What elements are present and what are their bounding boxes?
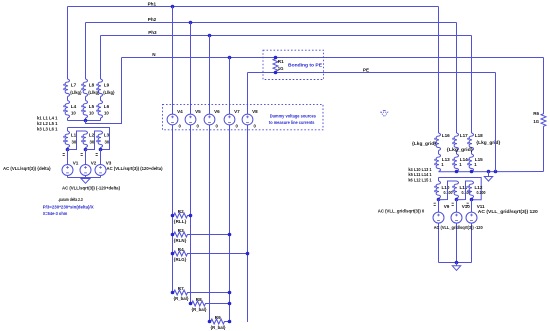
svg-text:{R_bal}: {R_bal} [174, 296, 189, 301]
svg-text:R2: R2 [178, 209, 184, 214]
wire line 5 lower [247, 125, 249, 322]
node grid tap 3 [470, 198, 474, 202]
dashed box dummy sources [163, 104, 324, 129]
node tap on rail 4 [228, 56, 232, 60]
svg-text:1G: 1G [278, 66, 284, 71]
svg-text:L16: L16 [442, 133, 450, 138]
wire phase 1 feeder [67, 7, 69, 80]
svg-text:X=64e-3 ohm: X=64e-3 ohm [43, 211, 68, 216]
svg-text:V9: V9 [444, 204, 450, 209]
svg-text:P/3=230*230*sin(delta)/X: P/3=230*230*sin(delta)/X [43, 204, 95, 209]
svg-text:{Lkg_grid}: {Lkg_grid} [412, 141, 436, 146]
ground grid sources [456, 263, 458, 266]
svg-text:L18: L18 [475, 133, 483, 138]
svg-text:k3 L3 L6 1: k3 L3 L6 1 [37, 126, 58, 131]
wire [85, 97, 87, 101]
wire phase 3 feeder [100, 36, 102, 80]
node R3 terminal [228, 233, 232, 237]
svg-text:.param delta 2.3: .param delta 2.3 [58, 197, 83, 202]
svg-text:k4 L10 L13 1: k4 L10 L13 1 [408, 167, 432, 172]
svg-text:L10: L10 [442, 185, 450, 190]
svg-text:AC (VLL/sqrt(3)) (-120+delta): AC (VLL/sqrt(3)) (-120+delta) [62, 186, 120, 191]
svg-text:L1: L1 [71, 133, 77, 138]
node R7 terminal [228, 291, 232, 295]
node grid tap 2 [455, 198, 459, 202]
wire [100, 148, 102, 150]
wire [67, 128, 69, 132]
svg-text:{Lkg_grid}: {Lkg_grid} [447, 147, 473, 152]
node R1 top [274, 56, 278, 60]
svg-text:L9: L9 [104, 82, 110, 87]
wire line 5 down [247, 73, 249, 115]
wire [100, 97, 102, 101]
wire [85, 118, 87, 121]
wire line 2 down [190, 23, 192, 115]
svg-text:R1: R1 [278, 59, 284, 64]
svg-text:L6: L6 [104, 104, 110, 109]
wire [471, 198, 473, 199]
svg-text:V6: V6 [214, 109, 220, 114]
node R8 terminal [189, 302, 193, 306]
resistor R1 [273, 58, 278, 73]
node phase tap 1 [66, 148, 70, 152]
wire [471, 151, 473, 155]
svg-text:V7: V7 [234, 109, 240, 114]
inductor L15 [469, 154, 473, 172]
svg-text:0.100: 0.100 [444, 190, 454, 195]
svg-text:V10: V10 [462, 204, 471, 209]
svg-text:AC (VLL_grid/sqrt(3)) 120: AC (VLL_grid/sqrt(3)) 120 [478, 209, 538, 214]
inductor L18 [469, 133, 473, 151]
svg-text:0.100: 0.100 [477, 190, 487, 195]
wire [438, 200, 440, 213]
wire [471, 223, 473, 262]
node R4 terminal [246, 252, 250, 256]
node neutral junction [84, 119, 88, 123]
inductor L4 [65, 101, 69, 119]
node tap on rail 3 [208, 34, 212, 38]
voltage source V6 [204, 114, 215, 125]
svg-text:L2: L2 [89, 133, 95, 138]
svg-text:{R_bal}: {R_bal} [211, 325, 226, 330]
svg-text:L17: L17 [460, 133, 468, 138]
wire line 1 lower [172, 125, 174, 293]
voltage source V7 [224, 114, 235, 125]
svg-text:{Llkg}: {Llkg} [103, 90, 115, 95]
svg-text:PE: PE [363, 68, 369, 73]
wire N rail [122, 57, 544, 59]
resistor R6 [541, 113, 546, 127]
wire [456, 151, 458, 155]
node R1 bottom [274, 71, 278, 75]
node R9 terminal [208, 320, 212, 324]
svg-text:10: 10 [71, 111, 76, 116]
node R2 terminal [171, 214, 175, 218]
net flag mark right 3 [467, 203, 469, 205]
wire delta link right 1 [439, 181, 457, 200]
svg-text:AC (VLL/sqrt(3)) {delta}: AC (VLL/sqrt(3)) {delta} [3, 166, 51, 171]
net flag mark right 2 [452, 203, 454, 205]
voltage source V10 [451, 212, 462, 223]
net flag mark 1 [63, 153, 65, 155]
wire line 1 down [172, 7, 174, 115]
svg-text:V1: V1 [73, 161, 79, 166]
svg-text:10: 10 [89, 111, 94, 116]
wire [438, 198, 440, 199]
wire delta link right 2 [457, 181, 472, 200]
wire [456, 223, 458, 262]
inductor L2 [83, 131, 87, 148]
net flag mark 3 [96, 153, 98, 155]
node tap on rail 2 [189, 21, 193, 25]
svg-text:AC (VLL_grid/sqrt(3)) -120: AC (VLL_grid/sqrt(3)) -120 [434, 225, 483, 230]
wire PE rail [248, 72, 496, 74]
wire Ph2 rail [86, 22, 457, 24]
wire delta rail right [439, 178, 482, 200]
inductor L11 [454, 181, 458, 198]
wire [100, 118, 102, 121]
voltage source V5 [185, 114, 196, 125]
node L14 bottom [455, 170, 459, 174]
node R3 terminal [171, 233, 175, 237]
resistor R4 [173, 251, 248, 256]
svg-text:L5: L5 [89, 104, 95, 109]
inductor L7 [65, 79, 69, 97]
svg-text:L4: L4 [71, 104, 77, 109]
svg-text:V5: V5 [195, 109, 201, 114]
inductor L5 [83, 101, 87, 119]
svg-text:R7: R7 [178, 286, 184, 291]
voltage source V9 [433, 212, 444, 223]
wire grid feeder 3 [471, 36, 473, 134]
inductor L17 [454, 133, 458, 151]
net flag mark right 1 [434, 203, 436, 205]
inductor L10 [436, 181, 440, 198]
resistor R3 [173, 232, 230, 237]
voltage source V2 [80, 165, 91, 176]
node R8 terminal [228, 302, 232, 306]
wire [471, 200, 473, 213]
svg-text:AC (VLL_grid/sqrt(3)) 0: AC (VLL_grid/sqrt(3)) 0 [378, 209, 425, 214]
node L15 bottom [470, 170, 474, 174]
wire [67, 176, 69, 178]
voltage source V4 [167, 114, 178, 125]
inductor L9 [98, 79, 102, 97]
node R7 terminal [171, 291, 175, 295]
svg-text:V2: V2 [91, 161, 97, 166]
wire grid feeder 2 [456, 23, 458, 134]
wire [67, 150, 69, 165]
wire grid feeder 1 [438, 7, 440, 134]
resistor R9 [210, 319, 230, 324]
svg-text:10: 10 [104, 111, 109, 116]
svg-text:L12: L12 [475, 185, 483, 190]
svg-text:k6 L12 L15 1: k6 L12 L15 1 [408, 178, 432, 183]
svg-text:{RLL}: {RLL} [174, 219, 187, 224]
svg-text:k2 L2 L5 1: k2 L2 L5 1 [37, 121, 58, 126]
svg-text:{RLG}: {RLG} [174, 257, 187, 262]
wire [100, 176, 102, 178]
wire [85, 150, 87, 165]
wire [438, 223, 440, 262]
resistor R7 [173, 290, 230, 295]
inductor L8 [83, 79, 87, 97]
wire R6 to bus [543, 127, 545, 172]
svg-text:30: 30 [105, 139, 110, 144]
svg-text:{Llkg}: {Llkg} [70, 90, 82, 95]
svg-text:{RLN}: {RLN} [174, 238, 187, 243]
svg-text:L8: L8 [89, 82, 95, 87]
svg-text:V8: V8 [252, 109, 258, 114]
wire line 2 lower [190, 125, 192, 304]
svg-text:R9: R9 [215, 315, 221, 320]
wire N to R6 [543, 58, 545, 113]
inductor L12 [469, 181, 473, 198]
svg-text:{Lkg_grid}: {Lkg_grid} [476, 140, 500, 145]
ground right bus [488, 172, 490, 177]
svg-text:R4: R4 [178, 247, 184, 252]
wire right neutral bus [439, 171, 544, 173]
wire [67, 148, 69, 150]
resistor R2 [173, 213, 191, 218]
wire delta link 2 [86, 131, 101, 150]
wire phase 2 feeder [85, 23, 87, 80]
wire line 4 down [229, 58, 231, 115]
inductor L16 [436, 133, 440, 151]
node phase tap 2 [84, 148, 88, 152]
svg-text:L3: L3 [104, 133, 110, 138]
wire [438, 178, 440, 182]
wire Ph1 rail [68, 6, 439, 8]
inductor L3 [98, 131, 102, 148]
wire line 3 lower [209, 125, 211, 322]
node R4 terminal [171, 252, 175, 256]
svg-text:R6: R6 [533, 111, 539, 116]
wire source common bus [68, 177, 101, 179]
wire grid source bus [439, 262, 472, 264]
ground [81, 179, 90, 184]
wire [456, 200, 458, 213]
svg-text:L7: L7 [71, 82, 77, 87]
wire [85, 176, 87, 178]
voltage source V11 [466, 212, 477, 223]
svg-text:AC (VLL/sqrt(3)) (120+delta): AC (VLL/sqrt(3)) (120+delta) [107, 166, 163, 171]
wire [85, 148, 87, 150]
svg-text:R8: R8 [196, 297, 202, 302]
svg-text:to measure line currents: to measure line currents [269, 120, 315, 125]
dashed box bonding [263, 50, 324, 79]
node R9 terminal [228, 320, 232, 324]
svg-text:1G: 1G [533, 119, 539, 124]
node phase tap 3 [99, 148, 103, 152]
svg-text:Bonding to PE: Bonding to PE [288, 63, 322, 68]
wire neutral to N rail [86, 58, 122, 124]
wire delta rail left [68, 128, 110, 150]
node PE tap [494, 170, 498, 174]
wire delta link 1 [68, 131, 86, 150]
inductor L14 [454, 154, 458, 172]
svg-text:R3: R3 [178, 228, 184, 233]
svg-text:V4: V4 [177, 109, 183, 114]
net flag mark 2 [81, 153, 83, 155]
wire Ph3 rail [101, 35, 472, 37]
inductor L6 [98, 101, 102, 119]
wire [100, 150, 102, 165]
voltage source V8 [242, 114, 253, 125]
dotted ground marker [381, 112, 388, 117]
wire secondary wye neutral bus [68, 120, 101, 122]
wire line 4 lower [229, 125, 231, 322]
voltage source V1 [62, 165, 73, 176]
inductor L13 [436, 154, 440, 172]
svg-text:L11: L11 [460, 185, 468, 190]
resistor R8 [191, 301, 230, 306]
node R2 terminal [189, 214, 193, 218]
svg-text:Ph2: Ph2 [148, 17, 157, 22]
svg-text:Dummy voltage sources: Dummy voltage sources [270, 114, 317, 119]
wire [67, 97, 69, 101]
voltage source V3 [95, 165, 106, 176]
svg-text:Ph1: Ph1 [148, 2, 157, 7]
wire [67, 118, 69, 121]
svg-text:Ph3: Ph3 [148, 30, 157, 35]
node grid source common [455, 261, 459, 265]
wire [438, 151, 440, 155]
svg-text:{R_bal}: {R_bal} [192, 307, 207, 312]
svg-text:k5 L11 L14 1: k5 L11 L14 1 [408, 172, 432, 177]
wire PE column [495, 73, 497, 172]
wire [456, 198, 458, 199]
node grid tap 1 [437, 198, 441, 202]
inductor L1 [65, 131, 69, 148]
node ground tap [487, 170, 491, 174]
wire line 3 down [209, 36, 211, 115]
node tap on rail 1 [171, 5, 175, 9]
svg-text:k1 L1 L4 1: k1 L1 L4 1 [37, 116, 58, 121]
